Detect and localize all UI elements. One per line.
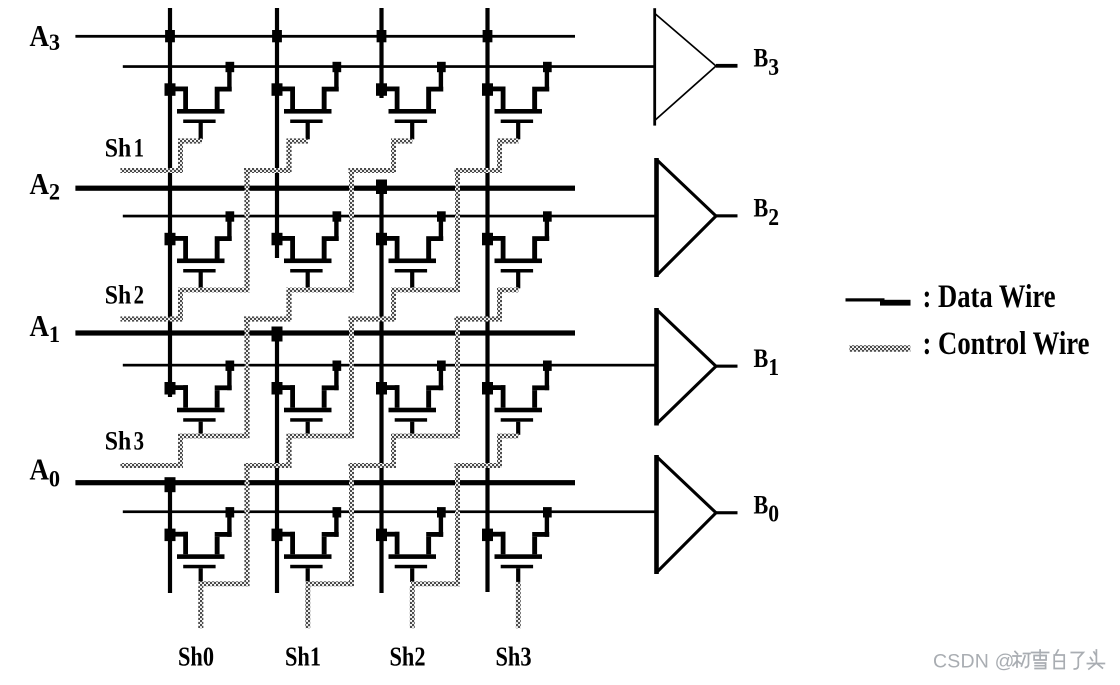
op-amp buffer U1 driving B3	[653, 8, 737, 125]
watermark chinese glyph strokes	[1013, 650, 1104, 669]
transistor Q31: gate lead	[306, 123, 310, 139]
svg-text:Sh0: Sh0	[178, 641, 214, 671]
transistor Q22: gate bar	[395, 269, 427, 273]
transistor Q12: left (drain) arm	[382, 385, 400, 390]
svg-text:Sh: Sh	[105, 426, 132, 455]
svg-text:3: 3	[134, 427, 144, 456]
svg-text:Sh3: Sh3	[496, 641, 532, 671]
transistor Q30: right (source) arm	[227, 71, 231, 92]
transistor Q00: gate lead	[199, 568, 203, 582]
transistor Q12 (row B1, column 3)	[376, 361, 446, 435]
wire: E-run col 4 channel 2	[455, 317, 503, 322]
wire: column 4 segment (carries A3)	[485, 8, 489, 592]
transistor Q21: channel bar	[284, 259, 332, 264]
transistor Q33: channel bar	[495, 109, 543, 114]
transistor Q32: gate lead	[410, 123, 414, 139]
transistor Q11: channel bar	[284, 408, 332, 413]
wire: riser col 4 channel 3	[497, 434, 502, 469]
transistor Q33: dot on output line	[543, 62, 552, 72]
transistor Q30: dot on output line	[226, 62, 235, 72]
transistor Q22: junction on column	[376, 233, 387, 246]
svg-text:3: 3	[49, 29, 60, 55]
wire: Sh1 entry riser	[178, 139, 183, 174]
transistor Q20: dot on output line	[226, 211, 235, 221]
transistor Q02 (row B0, column 3)	[376, 507, 446, 582]
transistor Q02: gate bar	[395, 565, 427, 569]
transistor Q12: channel bar	[389, 408, 437, 413]
wire: control riser col 2, channel1 to channel2	[245, 168, 250, 293]
wire: control riser col 2, channel3 to row B0 gate run	[245, 463, 250, 586]
transistor Q12: right (source) arm	[439, 369, 443, 390]
node: junction dot A3 x column 2	[272, 30, 282, 42]
transistor Q11: right (source) arm	[334, 369, 338, 390]
transistor Q30: junction on column	[165, 83, 176, 96]
transistor Q13: junction on column	[482, 382, 493, 395]
wire: input data line A1 (horizontal)	[75, 330, 575, 335]
transistor Q12: gate bar	[395, 418, 427, 422]
transistor Q33: junction on column	[482, 83, 493, 96]
transistor Q33 (row B3, column 4)	[482, 62, 552, 140]
transistor Q02: junction on column	[376, 529, 387, 542]
transistor Q23: gate lead	[516, 273, 520, 289]
transistor Q33: gate bar	[501, 120, 533, 124]
transistor Q10: gate lead	[199, 422, 203, 435]
wire: control riser col 3, channel3 to row B0 gate run	[349, 463, 354, 586]
svg-text:B: B	[754, 492, 769, 520]
wire: jog to gate col 4 channel 3	[497, 434, 519, 439]
node: junction dot A2 x column 3	[376, 180, 387, 195]
wire: Sh2 entry riser	[178, 288, 183, 322]
wire: column 1 lower segment (carries A0)	[168, 480, 172, 593]
wire: pass-under run col 2 channel 2 (to next riser)	[287, 288, 355, 293]
wire: control riser col 4, channel3 to row B0 gate run	[455, 463, 460, 586]
transistor Q03: channel bar	[495, 554, 543, 559]
transistor Q01: gate bar	[290, 565, 322, 569]
transistor Q22: right (source) arm	[439, 220, 443, 241]
wire: input data line A3 (horizontal)	[75, 35, 575, 38]
transistor Q21 (row B2, column 2)	[272, 211, 342, 288]
transistor Q02: dot on output line	[437, 507, 446, 517]
wire: Sh3 entry run (left, channel 3)	[121, 463, 183, 468]
transistor Q02: right (source) arm	[439, 516, 443, 537]
wire: jog to gate col 3 channel 1	[391, 139, 413, 144]
node: junction dot A3 x column 3	[377, 30, 387, 42]
transistor Q03: gate lead	[516, 568, 520, 582]
wire: jog to gate col 2 channel 1	[287, 139, 309, 144]
transistor Q32: channel bar	[389, 109, 437, 114]
wire: control riser col 3, channel1 to channel2	[349, 168, 354, 293]
transistor Q00: channel bar	[177, 554, 225, 559]
wire: E-run col 3 channel 3	[349, 463, 397, 468]
wire: Sh0 drop to bottom label	[198, 586, 203, 628]
wire: control riser col 3, channel2 to channel3	[349, 317, 354, 439]
transistor Q20: gate lead	[199, 273, 203, 289]
wire: pass-under run col 2 channel 3 (to next riser)	[287, 434, 355, 439]
transistor Q31: left (drain) arm	[277, 87, 295, 92]
wire: E-run col 4 channel 1	[455, 168, 503, 173]
svg-text:1: 1	[49, 322, 60, 348]
legend: control wire sample	[849, 345, 910, 352]
transistor Q32: left (drain) arm	[382, 87, 400, 92]
transistor Q30: gate bar	[183, 120, 215, 124]
transistor Q23: right (source) arm	[545, 220, 549, 241]
transistor Q02: gate lead	[410, 568, 414, 582]
transistor Q30: left (drain) arm	[170, 87, 188, 92]
op-amp buffer U4 driving B0	[654, 455, 737, 574]
transistor Q13 (row B1, column 4)	[482, 361, 552, 435]
wire: output row line to buffer B2 (horizontal thin)	[123, 215, 656, 218]
wire: output row line to buffer B1 (horizontal thin)	[123, 364, 656, 367]
transistor Q01: left (drain) arm	[277, 532, 295, 537]
wire: control riser col 2, channel2 to channel3	[245, 317, 250, 439]
node: junction dot A0 x column 1	[165, 477, 176, 492]
transistor Q32 (row B3, column 3)	[376, 62, 446, 140]
transistor Q22: channel bar	[389, 259, 437, 264]
transistor Q01: dot on output line	[333, 507, 342, 517]
transistor Q32: right (source) arm	[439, 71, 443, 92]
transistor Q10 (row B1, column 1)	[165, 361, 235, 435]
transistor Q23: channel bar	[495, 259, 543, 264]
transistor Q01: junction on column	[272, 529, 283, 542]
transistor Q03: dot on output line	[543, 507, 552, 517]
transistor Q10: left (drain) arm	[170, 385, 188, 390]
svg-text:0: 0	[49, 466, 60, 492]
wire: riser col 4 channel 1	[497, 139, 502, 174]
transistor Q13: right (source) arm	[545, 369, 549, 390]
node: junction dot A1 x column 2	[272, 327, 283, 342]
wire: E-run col 3 channel 2	[349, 317, 397, 322]
transistor Q31: junction on column	[272, 83, 283, 96]
transistor Q13: gate lead	[516, 422, 520, 435]
transistor Q03: junction on column	[482, 529, 493, 542]
transistor Q12: gate lead	[410, 422, 414, 435]
svg-text:2: 2	[49, 179, 60, 205]
transistor Q20: junction on column	[165, 233, 176, 246]
transistor Q10: gate bar	[183, 418, 215, 422]
transistor Q20 (row B2, column 1)	[165, 211, 235, 288]
wire: riser col 3 channel 2	[391, 288, 396, 322]
svg-text:2: 2	[768, 204, 779, 230]
svg-text:: Data Wire: : Data Wire	[923, 279, 1056, 315]
transistor Q30 (row B3, column 1)	[165, 62, 235, 140]
transistor Q32: dot on output line	[437, 62, 446, 72]
svg-text:1: 1	[768, 354, 779, 380]
node: junction dot A3 x column 4	[483, 30, 493, 42]
wire: E-run col 4 channel 3	[455, 463, 503, 468]
transistor Q00: gate bar	[183, 565, 215, 569]
transistor Q11: dot on output line	[333, 361, 342, 371]
transistor Q10: channel bar	[177, 408, 225, 413]
transistor Q20: left (drain) arm	[170, 236, 188, 241]
wire: Sh1 drop to bottom label	[305, 586, 310, 628]
transistor Q02: left (drain) arm	[382, 532, 400, 537]
wire: E-run col 2 channel 2	[244, 317, 292, 322]
wire: jog to gate col 4 channel 1	[497, 139, 519, 144]
transistor Q11: left (drain) arm	[277, 385, 295, 390]
svg-text:3: 3	[768, 54, 779, 80]
svg-text:0: 0	[768, 501, 779, 527]
op-amp buffer U3 driving B1	[654, 308, 737, 426]
transistor Q03: left (drain) arm	[488, 532, 506, 537]
transistor Q10: dot on output line	[226, 361, 235, 371]
wire: column 3 upper segment (carries A3)	[379, 8, 383, 98]
transistor Q13: left (drain) arm	[488, 385, 506, 390]
svg-text:B: B	[754, 195, 769, 223]
wire: input data line A2 (horizontal)	[75, 186, 575, 191]
svg-text:: Control Wire: : Control Wire	[923, 326, 1090, 362]
wire: Sh2 entry run (left, channel 2)	[121, 317, 183, 322]
wire: control riser col 4, channel1 to channel2	[455, 168, 460, 293]
wire: input data line A0 (horizontal)	[75, 480, 575, 485]
transistor Q23: dot on output line	[543, 211, 552, 221]
transistor Q13: channel bar	[495, 408, 543, 413]
transistor Q00: junction on column	[165, 529, 176, 542]
transistor Q20: channel bar	[177, 259, 225, 264]
transistor Q13: dot on output line	[543, 361, 552, 371]
svg-text:B: B	[754, 345, 769, 373]
transistor Q10: junction on column	[165, 382, 176, 395]
wire: Sh1 entry run (left, channel 1)	[121, 168, 183, 173]
wire: output row line to buffer B3 (horizontal thin)	[123, 65, 656, 68]
transistor Q33: left (drain) arm	[488, 87, 506, 92]
svg-text:A: A	[30, 18, 50, 53]
wire: row B0 gate run col1	[199, 581, 250, 586]
transistor Q00: left (drain) arm	[170, 532, 188, 537]
transistor Q13: gate bar	[501, 418, 533, 422]
transistor Q31: right (source) arm	[334, 71, 338, 92]
wire: row B0 gate run col3	[411, 581, 460, 586]
transistor Q32: junction on column	[376, 83, 387, 96]
svg-text:B: B	[754, 45, 769, 73]
transistor Q00: dot on output line	[226, 507, 235, 517]
transistor Q30: channel bar	[177, 109, 225, 114]
transistor Q33: gate lead	[516, 123, 520, 139]
wire: E-run col 2 channel 1	[244, 168, 292, 173]
wire: riser col 3 channel 1	[391, 139, 396, 174]
wire: riser col 2 channel 2	[287, 288, 292, 322]
transistor Q23 (row B2, column 4)	[482, 211, 552, 288]
transistor Q31 (row B3, column 2)	[272, 62, 342, 140]
transistor Q00 (row B0, column 1)	[165, 507, 235, 582]
wire: E-run col 2 channel 3	[244, 463, 292, 468]
wire: control riser col 4, channel2 to channel3	[455, 317, 460, 439]
transistor Q31: gate bar	[290, 120, 322, 124]
svg-text:Sh: Sh	[105, 134, 132, 163]
transistor Q22: dot on output line	[437, 211, 446, 221]
transistor Q10: right (source) arm	[227, 369, 231, 390]
wire: pass-under run col 1 (channel 2)	[178, 288, 250, 293]
transistor Q01 (row B0, column 2)	[272, 507, 342, 582]
transistor Q30: gate lead	[199, 123, 203, 139]
transistor Q11: gate lead	[306, 422, 310, 435]
svg-text:CSDN @: CSDN @	[933, 651, 1015, 673]
wire: Sh2 drop to bottom label	[410, 586, 415, 628]
transistor Q12: dot on output line	[437, 361, 446, 371]
wire: column 2 lower segment (carries A1)	[275, 331, 279, 593]
transistor Q03: gate bar	[501, 565, 533, 569]
wire: row B0 gate run col2	[306, 581, 355, 586]
wire: pass-under run col 3 channel 3 (to next riser)	[391, 434, 460, 439]
wire: E-run col 3 channel 1	[349, 168, 397, 173]
svg-text:A: A	[30, 308, 50, 343]
transistor Q01: channel bar	[284, 554, 332, 559]
op-amp buffer U2 driving B2	[654, 158, 737, 277]
transistor Q11: gate bar	[290, 418, 322, 422]
transistor Q21: junction on column	[272, 233, 283, 246]
transistor Q21: dot on output line	[333, 211, 342, 221]
wire: Sh3 drop to bottom label	[516, 582, 521, 628]
wire: jog to gate col 4 channel 2	[497, 288, 519, 293]
transistor Q31: channel bar	[284, 109, 332, 114]
wire: column 1 upper segment (carries A3)	[168, 8, 172, 397]
svg-text:Sh1: Sh1	[285, 641, 321, 671]
wire: pass-under run col 1 (channel 3)	[178, 434, 250, 439]
wire: column 2 upper segment (carries A3)	[275, 8, 279, 258]
transistor Q12: junction on column	[376, 382, 387, 395]
svg-text:Sh: Sh	[105, 280, 132, 309]
transistor Q01: right (source) arm	[334, 516, 338, 537]
wire: riser col 4 channel 2	[497, 288, 502, 322]
svg-text:1: 1	[134, 134, 144, 163]
node: junction dot A3 x column 1	[165, 30, 175, 42]
transistor Q11: junction on column	[272, 382, 283, 395]
wire: output row line to buffer B0 (horizontal thin)	[123, 510, 656, 513]
transistor Q33: right (source) arm	[545, 71, 549, 92]
transistor Q22: gate lead	[410, 273, 414, 289]
transistor Q31: dot on output line	[333, 62, 342, 72]
transistor Q00: right (source) arm	[227, 516, 231, 537]
transistor Q23: gate bar	[501, 269, 533, 273]
transistor Q03: right (source) arm	[545, 516, 549, 537]
wire: Sh3 entry riser	[178, 434, 183, 469]
wire: riser col 2 channel 1	[287, 139, 292, 174]
svg-text:Sh2: Sh2	[390, 641, 426, 671]
transistor Q20: gate bar	[183, 269, 215, 273]
svg-text:A: A	[30, 452, 50, 487]
wire: riser col 2 channel 3	[287, 434, 292, 469]
transistor Q02: channel bar	[389, 554, 437, 559]
wire: column 3 lower segment (carries A2)	[379, 181, 383, 593]
transistor Q21: gate lead	[306, 273, 310, 289]
transistor Q20: right (source) arm	[227, 220, 231, 241]
svg-text:2: 2	[134, 281, 144, 310]
transistor Q01: gate lead	[306, 568, 310, 582]
transistor Q32: gate bar	[395, 120, 427, 124]
transistor Q21: gate bar	[290, 269, 322, 273]
transistor Q23: junction on column	[482, 233, 493, 246]
transistor Q22 (row B2, column 3)	[376, 211, 446, 288]
transistor Q21: left (drain) arm	[277, 236, 295, 241]
wire: riser col 3 channel 3	[391, 434, 396, 469]
transistor Q23: left (drain) arm	[488, 236, 506, 241]
svg-text:A: A	[30, 166, 50, 201]
wire: pass-under run col 3 channel 2 (to next riser)	[391, 288, 460, 293]
transistor Q03 (row B0, column 4)	[482, 507, 552, 582]
transistor Q11 (row B1, column 2)	[272, 361, 342, 435]
wire: jog to gate row B3 col 1	[178, 139, 202, 144]
transistor Q21: right (source) arm	[334, 220, 338, 241]
transistor Q22: left (drain) arm	[382, 236, 400, 241]
